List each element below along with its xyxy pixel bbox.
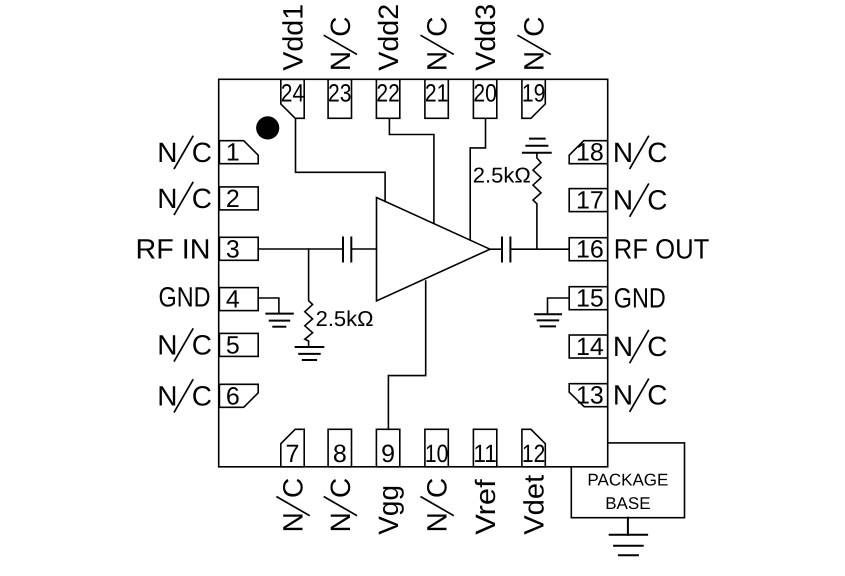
pin 19 box	[522, 79, 545, 118]
pin 21 box	[425, 79, 448, 118]
pin 23 (N/C)	[324, 16, 356, 118]
package outline	[219, 79, 608, 467]
pin 6 (N/C)	[157, 380, 258, 412]
pin 19 name label N/C	[518, 16, 550, 71]
pin 16 box	[569, 238, 608, 261]
pin 17 name label N/C	[613, 184, 668, 216]
svg-text:20: 20	[473, 80, 497, 108]
wire: Vdd2 pin 22 to op-amp	[389, 118, 434, 223]
pin 3 (RF IN)	[136, 233, 259, 264]
capacitor C1	[343, 238, 351, 262]
pin 10 box	[425, 429, 448, 467]
wire: RF OUT net, C2 to pin 16	[510, 248, 569, 250]
pin 17 (N/C)	[569, 184, 667, 216]
pin 4 box	[219, 288, 258, 311]
pin 22 (Vdd2)	[373, 4, 404, 119]
svg-text:13: 13	[576, 382, 604, 410]
pin 11 (Vref)	[470, 429, 501, 535]
svg-text:6: 6	[226, 382, 240, 410]
ground: R1	[296, 347, 324, 360]
package base label	[587, 470, 668, 513]
pin 10 (N/C)	[421, 429, 453, 532]
resistor R1 2.5k input shunt	[305, 249, 374, 347]
pin 18 name label N/C	[613, 136, 668, 168]
svg-text:5: 5	[226, 331, 240, 359]
pin 17 box	[569, 189, 608, 212]
pin 8 (N/C)	[324, 429, 356, 532]
pin 24 (Vdd1)	[278, 4, 309, 119]
svg-text:15: 15	[576, 285, 604, 313]
pin 5 (N/C)	[157, 329, 258, 361]
pin 8 name label N/C	[324, 478, 356, 533]
wire: C1 to op-amp input	[351, 248, 376, 250]
pin 23 name label N/C	[324, 16, 356, 71]
pin 7 name label N/C	[277, 478, 309, 533]
svg-text:Vdd2: Vdd2	[373, 4, 404, 71]
pin 15 (GND)	[569, 283, 666, 314]
pin 9 box	[376, 429, 399, 467]
wire: op-amp output to C2	[490, 248, 502, 250]
pin 19 (N/C)	[518, 16, 550, 118]
svg-text:1: 1	[226, 139, 240, 167]
svg-text:Vdd1: Vdd1	[278, 4, 309, 71]
pin 4 (GND)	[159, 282, 259, 314]
svg-text:23: 23	[328, 80, 352, 108]
pin 15 box	[569, 287, 608, 310]
svg-text:Vdd3: Vdd3	[470, 4, 501, 71]
wire: pin 15 GND stub	[548, 298, 570, 314]
pin 23 box	[328, 79, 351, 118]
pin 12 (Vdet)	[519, 429, 550, 535]
pin 12 box	[522, 429, 545, 467]
svg-text:BASE: BASE	[605, 494, 650, 513]
svg-text:8: 8	[333, 440, 347, 468]
pin 8 box	[328, 429, 351, 467]
capacitor C2	[502, 238, 510, 262]
pin 14 box	[569, 335, 608, 358]
svg-text:GND: GND	[614, 283, 666, 314]
pin 9 (Vgg)	[373, 429, 404, 535]
svg-text:19: 19	[522, 80, 546, 108]
pin 3 box	[219, 237, 258, 260]
pin 6 name label N/C	[157, 380, 212, 412]
pin 6 box	[219, 384, 258, 407]
svg-text:Vdet: Vdet	[519, 475, 550, 535]
svg-text:22: 22	[376, 80, 400, 108]
pin 14 (N/C)	[569, 331, 667, 363]
pin 22 box	[376, 79, 399, 118]
package base box	[571, 443, 684, 518]
pin 2 box	[219, 187, 258, 210]
pin 13 name label N/C	[613, 379, 668, 411]
svg-text:7: 7	[286, 440, 300, 468]
pin 5 box	[219, 333, 258, 356]
svg-text:2.5kΩ: 2.5kΩ	[473, 164, 531, 188]
svg-text:RF OUT: RF OUT	[614, 234, 710, 265]
pin 5 name label N/C	[157, 329, 212, 361]
ground: pin 4	[266, 314, 292, 327]
wire: RF IN net, pin 3 to C1	[258, 248, 343, 250]
pin 18 (N/C)	[569, 136, 667, 168]
pin 13 box	[569, 384, 608, 407]
op-amp U1	[377, 198, 491, 301]
pin 20 box	[473, 79, 496, 118]
ground: R2 (inverted)	[523, 139, 551, 153]
svg-text:18: 18	[576, 139, 604, 167]
wire: pin 4 GND stub	[258, 298, 279, 314]
pin 24 box	[281, 79, 304, 118]
pin 2 name label N/C	[157, 183, 212, 215]
svg-text:10: 10	[425, 440, 449, 468]
pin 20 (Vdd3)	[470, 4, 501, 118]
pin 1 index dot	[256, 116, 279, 139]
svg-text:12: 12	[522, 440, 546, 468]
ground: pin 15	[535, 314, 561, 326]
ground: package base	[610, 518, 647, 556]
pin 7 (N/C)	[277, 429, 309, 532]
pin 10 name label N/C	[421, 478, 453, 533]
svg-text:17: 17	[576, 187, 604, 215]
svg-text:21: 21	[425, 80, 449, 108]
pin 13 (N/C)	[569, 379, 667, 411]
svg-text:11: 11	[473, 440, 497, 468]
svg-text:4: 4	[226, 286, 240, 314]
resistor R2 2.5k output shunt	[473, 153, 541, 249]
pin 21 (N/C)	[421, 16, 453, 118]
pin 16 (RF OUT)	[569, 234, 709, 265]
svg-text:Vref: Vref	[470, 479, 501, 535]
svg-text:PACKAGE: PACKAGE	[587, 470, 668, 489]
svg-text:14: 14	[576, 333, 604, 361]
svg-text:2: 2	[226, 185, 240, 213]
pin 21 name label N/C	[421, 16, 453, 71]
svg-text:9: 9	[381, 440, 395, 468]
wire: Vdd1 pin 24 to op-amp	[296, 118, 386, 201]
pin 1 name label N/C	[157, 136, 212, 168]
svg-text:GND: GND	[159, 282, 211, 313]
pin 11 box	[473, 429, 496, 467]
svg-text:24: 24	[281, 80, 305, 108]
svg-text:2.5kΩ: 2.5kΩ	[316, 307, 374, 331]
pin 2 (N/C)	[157, 183, 258, 215]
svg-text:3: 3	[226, 235, 240, 263]
pin 7 box	[281, 429, 304, 467]
pin 1 (N/C)	[157, 136, 258, 168]
pin 1 box	[219, 141, 258, 164]
wire: Vgg pin 9 to op-amp	[388, 281, 425, 429]
svg-text:Vgg: Vgg	[373, 485, 404, 535]
svg-text:RF IN: RF IN	[136, 233, 211, 264]
pin 14 name label N/C	[613, 331, 668, 363]
wire: Vdd3 pin 20 to op-amp	[470, 118, 485, 239]
svg-text:16: 16	[576, 236, 604, 264]
pin 18 box	[569, 141, 608, 164]
